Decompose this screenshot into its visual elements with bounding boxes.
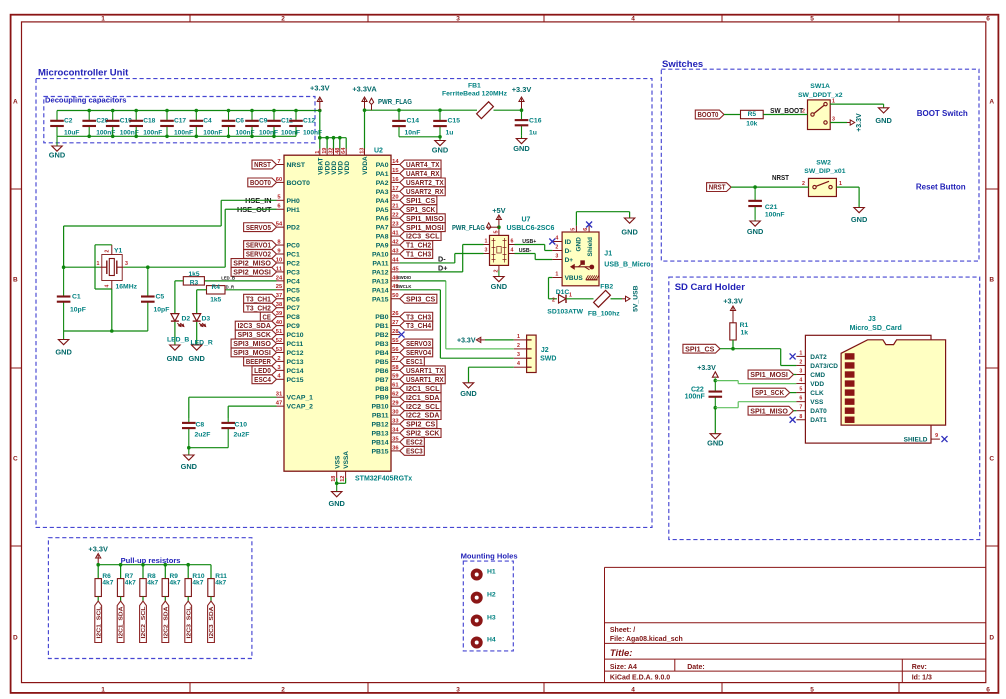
- svg-text:SWCLK: SWCLK: [396, 284, 411, 289]
- svg-text:2: 2: [802, 181, 805, 187]
- svg-text:PWR_FLAG: PWR_FLAG: [452, 225, 485, 232]
- svg-text:57: 57: [392, 356, 398, 362]
- svg-text:4: 4: [511, 247, 514, 253]
- svg-text:61: 61: [392, 383, 399, 389]
- svg-text:PA4: PA4: [376, 198, 389, 205]
- svg-text:DAT1: DAT1: [810, 417, 827, 424]
- svg-text:PC12: PC12: [287, 350, 304, 357]
- svg-text:3: 3: [555, 254, 558, 260]
- svg-text:C21: C21: [765, 204, 778, 211]
- svg-text:7: 7: [799, 405, 802, 411]
- svg-text:Microcontroller Unit: Microcontroller Unit: [38, 68, 129, 79]
- svg-text:C12: C12: [303, 118, 315, 125]
- svg-text:41: 41: [392, 231, 399, 237]
- svg-text:SW_BOOT: SW_BOOT: [770, 106, 803, 115]
- svg-text:6: 6: [986, 687, 990, 694]
- svg-text:FB1: FB1: [468, 82, 481, 89]
- svg-text:3: 3: [485, 247, 488, 253]
- svg-text:J2: J2: [541, 347, 549, 354]
- svg-text:SPI3_CS: SPI3_CS: [406, 294, 435, 303]
- svg-text:1u: 1u: [446, 130, 454, 137]
- svg-text:1: 1: [97, 261, 100, 267]
- svg-text:PA10: PA10: [372, 252, 389, 259]
- svg-text:1u: 1u: [529, 130, 537, 137]
- svg-text:1: 1: [569, 293, 572, 299]
- svg-text:30: 30: [392, 410, 398, 416]
- svg-text:C8: C8: [196, 421, 205, 428]
- svg-text:58: 58: [392, 365, 399, 371]
- svg-text:21: 21: [392, 204, 399, 210]
- svg-text:PB9: PB9: [375, 395, 388, 402]
- svg-text:LED0: LED0: [254, 366, 271, 375]
- svg-text:GND: GND: [188, 354, 205, 363]
- svg-text:PA11: PA11: [372, 260, 388, 267]
- svg-text:+3.3V: +3.3V: [512, 85, 532, 94]
- svg-text:T3_CH1: T3_CH1: [246, 294, 272, 303]
- svg-text:Switches: Switches: [662, 59, 703, 70]
- svg-text:SW_DPDT_x2: SW_DPDT_x2: [798, 92, 843, 99]
- svg-text:DAT2: DAT2: [810, 354, 827, 361]
- svg-text:SPI3_MOSI: SPI3_MOSI: [233, 348, 271, 357]
- svg-text:PB4: PB4: [375, 350, 388, 357]
- svg-text:C5: C5: [156, 294, 165, 301]
- svg-text:Shield: Shield: [587, 237, 594, 257]
- svg-text:3: 3: [832, 117, 835, 123]
- svg-text:D+: D+: [565, 257, 574, 264]
- svg-text:12: 12: [340, 476, 346, 482]
- svg-text:4k7: 4k7: [125, 579, 136, 586]
- svg-text:19: 19: [322, 148, 328, 154]
- svg-text:J1: J1: [604, 250, 612, 257]
- svg-text:2: 2: [105, 250, 111, 253]
- svg-text:CMD: CMD: [810, 372, 825, 379]
- svg-text:2: 2: [277, 356, 280, 362]
- svg-text:47: 47: [276, 401, 282, 407]
- svg-text:I2C3_SCL: I2C3_SCL: [406, 232, 440, 241]
- svg-text:5: 5: [810, 16, 814, 23]
- svg-text:J3: J3: [868, 316, 876, 323]
- svg-text:I2C1_SCL: I2C1_SCL: [406, 384, 440, 393]
- svg-text:10pF: 10pF: [154, 307, 170, 314]
- svg-text:SPI2_CS: SPI2_CS: [406, 420, 435, 429]
- svg-text:T3_CH4: T3_CH4: [406, 321, 432, 330]
- svg-text:SHIELD: SHIELD: [904, 436, 928, 443]
- svg-text:STM32F405RGTx: STM32F405RGTx: [355, 476, 412, 483]
- svg-text:1k5: 1k5: [210, 296, 221, 303]
- svg-text:56: 56: [392, 347, 399, 353]
- svg-text:GND: GND: [851, 215, 868, 224]
- svg-text:SPI1_MOSI: SPI1_MOSI: [750, 370, 788, 379]
- svg-text:16MHz: 16MHz: [116, 284, 138, 291]
- svg-text:10k: 10k: [746, 121, 757, 128]
- svg-text:SERVO2: SERVO2: [246, 250, 271, 259]
- svg-text:SW2: SW2: [816, 159, 831, 166]
- svg-text:GND: GND: [875, 116, 892, 125]
- svg-text:Pull-up resistors: Pull-up resistors: [121, 556, 181, 565]
- svg-text:B: B: [989, 277, 994, 284]
- svg-text:NRST: NRST: [287, 162, 306, 169]
- svg-text:ID: ID: [565, 239, 572, 246]
- svg-text:5V_USB: 5V_USB: [633, 285, 640, 312]
- svg-text:Title:: Title:: [610, 648, 633, 659]
- svg-text:C4: C4: [203, 118, 212, 125]
- svg-text:T1_CH3: T1_CH3: [406, 250, 431, 259]
- svg-text:C: C: [13, 456, 18, 463]
- svg-text:33: 33: [392, 418, 399, 424]
- svg-text:SD103ATW: SD103ATW: [547, 308, 583, 315]
- svg-text:SPI1_MISO: SPI1_MISO: [406, 214, 444, 223]
- svg-text:CE: CE: [263, 312, 271, 321]
- svg-text:GND: GND: [328, 499, 345, 508]
- svg-text:PB6: PB6: [375, 368, 388, 375]
- svg-text:Size: A4: Size: A4: [610, 664, 637, 671]
- svg-text:CLK: CLK: [810, 390, 824, 397]
- svg-text:USART1_RX: USART1_RX: [406, 375, 444, 384]
- svg-text:PC10: PC10: [287, 332, 304, 339]
- svg-text:SWDIO: SWDIO: [397, 275, 412, 280]
- svg-text:I2C3_SCL: I2C3_SCL: [186, 606, 192, 639]
- svg-text:2u2F: 2u2F: [195, 431, 211, 438]
- svg-text:UART4_TX: UART4_TX: [406, 160, 439, 169]
- svg-text:NRST: NRST: [772, 173, 789, 182]
- svg-text:H2: H2: [487, 592, 496, 599]
- svg-text:GND: GND: [576, 237, 583, 252]
- svg-text:T3_CH3: T3_CH3: [406, 312, 431, 321]
- svg-text:53: 53: [276, 347, 283, 353]
- svg-text:GND: GND: [167, 354, 184, 363]
- svg-text:GND: GND: [432, 146, 449, 155]
- svg-text:D+: D+: [438, 263, 447, 272]
- svg-text:USART2_RX: USART2_RX: [406, 187, 444, 196]
- svg-text:C9: C9: [259, 118, 268, 125]
- svg-text:C17: C17: [174, 118, 186, 125]
- svg-text:SPI2_SCK: SPI2_SCK: [406, 429, 440, 438]
- svg-text:4: 4: [517, 361, 520, 367]
- svg-text:SERVO5: SERVO5: [246, 223, 272, 232]
- svg-text:DAT0: DAT0: [810, 408, 827, 415]
- svg-text:2: 2: [552, 297, 555, 303]
- svg-text:31: 31: [276, 392, 283, 398]
- svg-text:B: B: [13, 277, 18, 284]
- svg-text:42: 42: [392, 239, 398, 245]
- svg-text:32: 32: [329, 148, 335, 154]
- svg-text:1: 1: [555, 272, 558, 278]
- svg-text:C18: C18: [143, 118, 155, 125]
- svg-text:T3_CH2: T3_CH2: [246, 303, 271, 312]
- svg-text:7: 7: [277, 159, 280, 165]
- svg-text:100nF: 100nF: [765, 211, 785, 218]
- svg-text:PA1: PA1: [376, 171, 389, 178]
- svg-text:I2C2_SCL: I2C2_SCL: [141, 606, 147, 639]
- svg-text:DAT3/CD: DAT3/CD: [810, 363, 838, 370]
- svg-text:PA8: PA8: [376, 234, 389, 241]
- svg-text:VDD: VDD: [810, 381, 824, 388]
- svg-text:5: 5: [570, 228, 576, 231]
- svg-text:PB2: PB2: [375, 332, 388, 339]
- svg-text:PH1: PH1: [287, 207, 300, 214]
- svg-text:3: 3: [799, 369, 802, 375]
- svg-text:H4: H4: [487, 637, 496, 644]
- svg-text:20: 20: [392, 195, 398, 201]
- svg-text:+3.3V: +3.3V: [697, 365, 716, 372]
- svg-text:C2: C2: [64, 118, 73, 125]
- svg-text:PB15: PB15: [371, 448, 388, 455]
- svg-text:C: C: [989, 456, 994, 463]
- svg-text:SPI1_CS: SPI1_CS: [685, 344, 714, 353]
- svg-text:SD Card Holder: SD Card Holder: [675, 282, 746, 293]
- svg-text:BOOT Switch: BOOT Switch: [917, 109, 968, 118]
- svg-text:NRST: NRST: [709, 183, 726, 192]
- svg-text:10nF: 10nF: [405, 130, 421, 137]
- svg-text:BOOT0: BOOT0: [250, 178, 271, 187]
- svg-text:4k7: 4k7: [147, 579, 158, 586]
- svg-text:R1: R1: [740, 322, 749, 329]
- svg-text:I2C1_SCL: I2C1_SCL: [96, 606, 102, 639]
- svg-text:35: 35: [392, 436, 399, 442]
- svg-text:PD2: PD2: [287, 225, 300, 232]
- svg-text:PA6: PA6: [376, 216, 389, 223]
- svg-text:+3.3V: +3.3V: [88, 545, 108, 554]
- svg-text:ESC3: ESC3: [406, 447, 423, 456]
- svg-text:I2C3_SDA: I2C3_SDA: [209, 606, 215, 639]
- svg-text:SP1_SCK: SP1_SCK: [406, 205, 436, 214]
- svg-text:PB11: PB11: [372, 413, 389, 420]
- svg-text:D: D: [989, 635, 994, 642]
- svg-text:C22: C22: [691, 386, 704, 393]
- svg-text:13: 13: [360, 148, 366, 154]
- svg-text:H3: H3: [487, 615, 496, 622]
- svg-text:4k7: 4k7: [215, 579, 226, 586]
- svg-text:PA12: PA12: [372, 269, 389, 276]
- svg-text:H1: H1: [487, 569, 496, 576]
- svg-text:2: 2: [555, 245, 558, 251]
- svg-text:VDD: VDD: [344, 161, 351, 175]
- svg-text:PC9: PC9: [287, 323, 300, 330]
- svg-text:54: 54: [276, 222, 283, 228]
- svg-text:SPI1_MOSI: SPI1_MOSI: [406, 223, 444, 232]
- svg-text:PC0: PC0: [287, 243, 300, 250]
- svg-text:PA7: PA7: [376, 225, 389, 232]
- svg-text:59: 59: [392, 374, 399, 380]
- svg-text:PC13: PC13: [287, 359, 304, 366]
- svg-text:PB3: PB3: [375, 341, 388, 348]
- svg-text:GND: GND: [707, 438, 724, 447]
- svg-text:BOOT0: BOOT0: [698, 110, 719, 119]
- svg-text:PC2: PC2: [287, 260, 300, 267]
- svg-text:9: 9: [935, 433, 938, 439]
- svg-text:R3: R3: [190, 280, 199, 287]
- svg-text:PB13: PB13: [371, 431, 388, 438]
- svg-text:3: 3: [456, 16, 460, 23]
- svg-text:USART2_TX: USART2_TX: [406, 178, 444, 187]
- svg-text:USB_B_Micro: USB_B_Micro: [604, 262, 650, 269]
- svg-text:PC8: PC8: [287, 314, 300, 321]
- svg-text:1: 1: [101, 687, 105, 694]
- svg-text:43: 43: [392, 248, 399, 254]
- svg-text:C10: C10: [235, 421, 248, 428]
- svg-text:62: 62: [392, 392, 398, 398]
- svg-text:44: 44: [392, 257, 399, 263]
- svg-text:VBAT: VBAT: [317, 157, 324, 174]
- svg-text:SPI3_SCK: SPI3_SCK: [237, 330, 271, 339]
- svg-text:SPI3_MISO: SPI3_MISO: [233, 339, 271, 348]
- svg-text:4k7: 4k7: [192, 579, 203, 586]
- svg-text:100nF: 100nF: [203, 130, 222, 137]
- svg-text:Id: 1/3: Id: 1/3: [912, 675, 932, 682]
- svg-text:Rev:: Rev:: [912, 664, 927, 671]
- svg-text:USBLC6-2SC6: USBLC6-2SC6: [507, 225, 555, 232]
- svg-text:ESC4: ESC4: [254, 375, 271, 384]
- svg-text:+3.3V: +3.3V: [457, 337, 476, 344]
- svg-text:PA2: PA2: [376, 180, 389, 187]
- svg-text:6: 6: [583, 228, 589, 231]
- svg-text:R4: R4: [211, 284, 220, 291]
- svg-text:22: 22: [392, 213, 398, 219]
- svg-text:6: 6: [986, 16, 990, 23]
- svg-text:I2C3_SDA: I2C3_SDA: [237, 321, 271, 330]
- svg-text:File: Aga08.kicad_sch: File: Aga08.kicad_sch: [610, 636, 683, 643]
- svg-text:1: 1: [315, 151, 321, 154]
- svg-text:PC7: PC7: [287, 305, 300, 312]
- svg-text:PA3: PA3: [376, 189, 389, 196]
- svg-text:PA14: PA14: [372, 287, 389, 294]
- svg-text:BOOT0: BOOT0: [287, 180, 311, 187]
- svg-text:PC15: PC15: [287, 377, 304, 384]
- svg-text:GND: GND: [49, 151, 66, 160]
- svg-text:GND: GND: [55, 348, 72, 357]
- svg-text:I2C2_SCL: I2C2_SCL: [406, 402, 440, 411]
- svg-text:BEEPER: BEEPER: [246, 357, 271, 366]
- svg-text:VSSA: VSSA: [343, 451, 350, 469]
- svg-text:I2C2_SDA: I2C2_SDA: [163, 606, 169, 639]
- svg-text:PC3: PC3: [287, 269, 300, 276]
- svg-text:Y1: Y1: [114, 247, 123, 254]
- svg-text:C14: C14: [407, 118, 420, 125]
- svg-text:1k: 1k: [741, 330, 749, 337]
- svg-text:PB14: PB14: [371, 439, 388, 446]
- svg-text:VBUS: VBUS: [565, 275, 584, 282]
- svg-text:FerriteBead 120MHz: FerriteBead 120MHz: [442, 91, 508, 98]
- svg-text:Micro_SD_Card: Micro_SD_Card: [850, 325, 902, 332]
- svg-text:1: 1: [832, 98, 835, 104]
- svg-text:PH0: PH0: [287, 198, 300, 205]
- svg-text:4: 4: [555, 236, 558, 242]
- svg-text:NRST: NRST: [254, 160, 271, 169]
- svg-text:+3.3VA: +3.3VA: [352, 85, 377, 94]
- svg-text:+3.3V: +3.3V: [723, 297, 743, 306]
- svg-text:VCAP_1: VCAP_1: [287, 395, 314, 402]
- svg-text:GND: GND: [621, 228, 638, 237]
- svg-text:6: 6: [511, 238, 514, 244]
- svg-text:SERVO4: SERVO4: [406, 348, 432, 357]
- svg-text:2: 2: [517, 343, 520, 349]
- svg-text:VSS: VSS: [810, 399, 824, 406]
- svg-text:SPI1_CS: SPI1_CS: [406, 196, 435, 205]
- svg-text:26: 26: [392, 311, 399, 317]
- svg-text:SPI2_MISO: SPI2_MISO: [233, 259, 271, 268]
- svg-text:1: 1: [101, 16, 105, 23]
- svg-text:Sheet: /: Sheet: /: [610, 627, 635, 634]
- svg-text:PC4: PC4: [287, 278, 300, 285]
- svg-text:3: 3: [125, 261, 128, 267]
- svg-text:45: 45: [392, 266, 399, 272]
- svg-text:34: 34: [392, 427, 399, 433]
- svg-text:PC5: PC5: [287, 287, 300, 294]
- svg-text:100nF: 100nF: [685, 393, 706, 400]
- svg-text:I2C2_SDA: I2C2_SDA: [406, 411, 440, 420]
- svg-text:15: 15: [392, 168, 399, 174]
- svg-text:17: 17: [392, 186, 398, 192]
- svg-text:PA9: PA9: [376, 243, 389, 250]
- svg-text:D-: D-: [565, 248, 572, 255]
- svg-text:24: 24: [276, 275, 283, 281]
- svg-text:36: 36: [392, 445, 399, 451]
- svg-text:A: A: [13, 99, 18, 106]
- svg-text:39: 39: [276, 311, 283, 317]
- svg-text:8: 8: [799, 414, 802, 420]
- svg-text:50: 50: [392, 293, 398, 299]
- svg-text:VDDA: VDDA: [362, 156, 369, 175]
- svg-text:SPI2_MOSI: SPI2_MOSI: [233, 268, 271, 277]
- svg-text:C6: C6: [236, 118, 245, 125]
- svg-text:2: 2: [799, 359, 802, 365]
- svg-text:PB7: PB7: [375, 377, 388, 384]
- svg-text:10pF: 10pF: [70, 307, 86, 314]
- svg-text:38: 38: [276, 302, 283, 308]
- svg-text:SW1A: SW1A: [810, 83, 830, 90]
- svg-text:2u2F: 2u2F: [234, 431, 250, 438]
- svg-text:SP1_SCK: SP1_SCK: [755, 388, 785, 397]
- svg-text:3: 3: [456, 687, 460, 694]
- svg-text:29: 29: [392, 401, 399, 407]
- svg-text:4: 4: [799, 378, 802, 384]
- svg-text:PA0: PA0: [376, 162, 389, 169]
- svg-text:Mounting Holes: Mounting Holes: [461, 552, 518, 561]
- svg-text:PC14: PC14: [287, 368, 304, 375]
- svg-text:LED_R: LED_R: [191, 339, 213, 346]
- svg-text:16: 16: [392, 177, 399, 183]
- svg-text:LED_B: LED_B: [167, 337, 189, 344]
- svg-text:D3: D3: [202, 316, 211, 323]
- svg-text:SW_DIP_x01: SW_DIP_x01: [804, 168, 845, 175]
- svg-text:C1: C1: [72, 294, 81, 301]
- svg-text:PB0: PB0: [375, 314, 388, 321]
- svg-text:1: 1: [485, 238, 488, 244]
- svg-text:100nF: 100nF: [143, 130, 162, 137]
- svg-text:SPI1_MISO: SPI1_MISO: [750, 406, 788, 415]
- svg-text:KiCad E.D.A. 9.0.0: KiCad E.D.A. 9.0.0: [610, 675, 670, 682]
- svg-text:D1C: D1C: [556, 289, 570, 296]
- svg-text:5: 5: [799, 387, 802, 393]
- svg-text:UART4_RX: UART4_RX: [406, 169, 439, 178]
- svg-text:T1_CH2: T1_CH2: [406, 241, 431, 250]
- svg-text:1k5: 1k5: [188, 271, 199, 278]
- svg-text:GND: GND: [181, 462, 198, 471]
- svg-text:SWD: SWD: [540, 356, 556, 363]
- svg-text:100nF: 100nF: [281, 130, 300, 137]
- svg-text:GND: GND: [460, 389, 477, 398]
- svg-text:PC11: PC11: [287, 341, 304, 348]
- svg-text:D-: D-: [438, 254, 446, 263]
- svg-text:VCAP_2: VCAP_2: [287, 404, 314, 411]
- svg-text:18: 18: [331, 476, 337, 482]
- svg-text:VSS: VSS: [334, 455, 341, 469]
- svg-text:+3.3V: +3.3V: [310, 84, 330, 93]
- svg-text:D: D: [13, 635, 18, 642]
- svg-text:PB1: PB1: [375, 323, 388, 330]
- svg-text:51: 51: [276, 329, 283, 335]
- svg-text:6: 6: [799, 396, 802, 402]
